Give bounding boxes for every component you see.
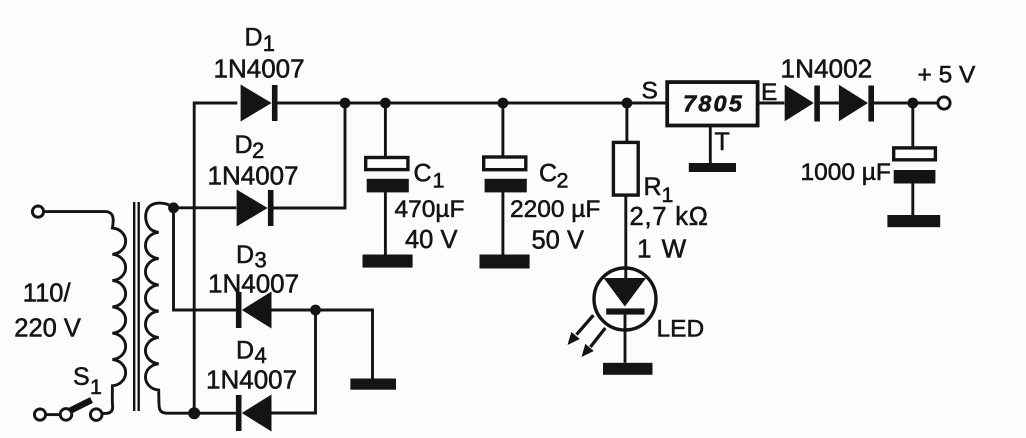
diode D6 1N4002 xyxy=(839,85,874,122)
svg-text:+ 5 V: + 5 V xyxy=(918,62,977,89)
label 1N4007 for D1 xyxy=(214,54,305,84)
wire input A to primary xyxy=(44,210,105,213)
svg-text:S: S xyxy=(642,78,658,105)
wire D2 cathode riser xyxy=(274,103,346,208)
ground bar for C2 xyxy=(480,255,530,269)
svg-text:1N4007: 1N4007 xyxy=(208,161,299,191)
diode D5 1N4002 xyxy=(785,85,820,122)
LED light arrow 2 xyxy=(582,328,606,357)
label 1N4007 for D2 xyxy=(208,161,299,191)
ground bar for D3/D4 xyxy=(350,379,396,390)
svg-text:470µF: 470µF xyxy=(395,196,465,223)
resistor R1 xyxy=(613,142,638,195)
wire C1 branch xyxy=(384,103,387,158)
svg-text:1N4002: 1N4002 xyxy=(781,54,873,84)
node output xyxy=(907,98,918,109)
node D3-D4 junction xyxy=(310,305,321,316)
svg-text:40 V: 40 V xyxy=(405,226,457,254)
label 40 V xyxy=(405,226,457,254)
svg-text:2: 2 xyxy=(252,138,264,163)
svg-text:2: 2 xyxy=(557,169,569,193)
diode D1 1N4007 xyxy=(241,85,278,122)
label 1000uF xyxy=(801,159,891,186)
svg-text:1: 1 xyxy=(90,375,102,399)
wire output cap branch xyxy=(911,103,914,148)
capacitor C2 xyxy=(484,157,527,192)
wire main riser bottom node to D1 row xyxy=(194,103,237,413)
label +5V xyxy=(918,62,977,89)
node C2 tap xyxy=(498,98,509,109)
svg-text:2200 µF: 2200 µF xyxy=(510,196,600,223)
ground bar for 7805 xyxy=(689,163,736,172)
svg-text:1N4007: 1N4007 xyxy=(206,365,297,395)
label 110/220 V xyxy=(14,280,81,343)
switch S1 input terminal xyxy=(34,409,45,420)
transformer T1 primary winding xyxy=(101,212,126,414)
label 1N4007 for D4 xyxy=(206,365,297,395)
svg-text:C: C xyxy=(414,160,432,188)
capacitor 1000uF xyxy=(894,148,936,184)
diode D4 1N4007 xyxy=(236,395,272,432)
svg-text:1: 1 xyxy=(433,169,445,193)
label LED xyxy=(657,316,705,343)
svg-text:C: C xyxy=(539,160,557,188)
svg-text:D: D xyxy=(236,337,254,365)
label 470uF xyxy=(395,196,465,223)
svg-text:1N4007: 1N4007 xyxy=(214,54,305,84)
wire C2 to ground xyxy=(501,192,504,254)
ground bar for output cap xyxy=(887,215,940,227)
svg-text:D: D xyxy=(235,131,253,159)
transformer core xyxy=(134,202,139,411)
svg-text:D: D xyxy=(245,24,263,52)
wire to output node xyxy=(874,102,938,105)
ground bar for LED xyxy=(603,363,653,375)
label 2200 uF xyxy=(510,196,600,223)
label 1N4002 xyxy=(781,54,873,84)
wire D4 row xyxy=(194,412,236,415)
wire D2 anode row xyxy=(174,206,237,209)
node secondary top tap xyxy=(168,202,179,213)
svg-text:T: T xyxy=(715,128,730,156)
label 1 W xyxy=(637,234,688,264)
label S1 xyxy=(73,363,102,399)
wire tap riser to D3 row xyxy=(174,208,236,310)
label C2 xyxy=(539,160,568,193)
svg-text:1 W: 1 W xyxy=(637,234,688,264)
label C1 xyxy=(414,160,445,193)
wire D4 anode riser xyxy=(272,310,316,413)
svg-text:1: 1 xyxy=(263,31,275,56)
svg-text:2,7 kΩ: 2,7 kΩ xyxy=(630,203,709,231)
label 1N4007 for D3 xyxy=(208,269,299,299)
wire LED to ground xyxy=(624,315,627,363)
node D2-D1 junction xyxy=(340,98,351,109)
switch S1 lever xyxy=(71,400,92,411)
svg-text:7805: 7805 xyxy=(683,91,744,117)
switch S1 throw contact xyxy=(90,409,102,421)
label T xyxy=(715,128,730,156)
svg-text:220 V: 220 V xyxy=(14,315,81,343)
svg-text:50 V: 50 V xyxy=(532,227,584,255)
node R1 tap xyxy=(622,98,633,109)
wire D3 anode to ground branch xyxy=(272,310,373,379)
node C1 tap xyxy=(380,98,391,109)
svg-text:D: D xyxy=(236,241,254,269)
regulator U1 7805 xyxy=(667,82,757,125)
wire terminal to switch pole xyxy=(46,413,60,416)
label D3 xyxy=(236,241,267,273)
diode D2 1N4007 xyxy=(237,190,274,227)
label D4 xyxy=(236,337,267,369)
wire between output diodes xyxy=(820,102,839,105)
capacitor C1 xyxy=(366,158,409,193)
wire C1 to ground xyxy=(384,192,387,254)
LED xyxy=(594,268,656,330)
wire 7805 T pin xyxy=(709,126,712,164)
svg-text:LED: LED xyxy=(657,316,705,343)
label D1 xyxy=(245,24,275,57)
svg-text:S: S xyxy=(73,363,90,391)
label E xyxy=(761,79,777,106)
node secondary bottom xyxy=(188,407,200,419)
diode D3 1N4007 xyxy=(236,292,272,329)
svg-text:1000 µF: 1000 µF xyxy=(801,159,891,186)
label S xyxy=(642,78,658,105)
wire R1 to LED xyxy=(624,195,627,278)
wire C2 branch xyxy=(501,103,504,157)
svg-text:110/: 110/ xyxy=(23,280,72,308)
ground bar for C1 xyxy=(363,255,413,268)
label D2 xyxy=(235,131,265,163)
LED light arrow 1 xyxy=(568,315,594,345)
wire D1 cathode to bus xyxy=(278,102,668,105)
wire 7805 output xyxy=(758,102,785,105)
svg-text:R: R xyxy=(644,173,662,201)
label 2,7 kOhm xyxy=(630,203,709,231)
wire output cap to ground xyxy=(911,184,914,216)
wire R1 branch xyxy=(625,103,628,142)
input terminal A xyxy=(32,206,43,217)
label R1 xyxy=(644,173,674,207)
output terminal +5V xyxy=(938,97,950,109)
switch S1 pole contact xyxy=(60,409,72,421)
svg-text:1N4007: 1N4007 xyxy=(208,269,299,299)
label 50 V xyxy=(532,227,584,255)
transformer secondary winding xyxy=(145,203,189,413)
